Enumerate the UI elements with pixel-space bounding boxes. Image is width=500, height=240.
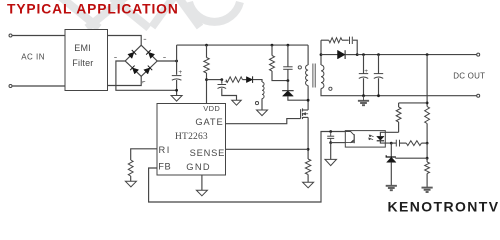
wire bbox=[307, 45, 309, 65]
bridge diode upper-left bbox=[128, 50, 136, 58]
wire bbox=[390, 162, 392, 186]
svg-text:GATE: GATE bbox=[195, 117, 223, 127]
ground vdd cap bbox=[232, 100, 242, 105]
wire bbox=[426, 174, 428, 188]
node bbox=[175, 89, 178, 92]
transistor Q1 mosfet bbox=[301, 108, 309, 119]
capacitor C5 snub2 bbox=[350, 37, 353, 44]
optocoupler U2 box bbox=[345, 131, 385, 148]
wire bbox=[222, 88, 237, 100]
diode D1 aux bbox=[246, 76, 252, 83]
node bbox=[287, 79, 290, 82]
node bbox=[377, 53, 380, 56]
opto LED bbox=[377, 136, 384, 140]
wire source bbox=[307, 117, 309, 159]
svg-text:EMI: EMI bbox=[74, 43, 91, 53]
diode D2 snubber bbox=[282, 91, 294, 96]
node bbox=[329, 130, 332, 133]
wire bbox=[391, 142, 396, 144]
wire bbox=[320, 40, 322, 65]
capacitor C2 vdd bbox=[218, 85, 227, 89]
label FB bbox=[158, 162, 171, 172]
wire bbox=[426, 158, 428, 162]
label HT2263 bbox=[175, 132, 208, 142]
node bridge+ bbox=[175, 60, 178, 63]
node bbox=[426, 142, 429, 145]
wire bbox=[207, 79, 222, 81]
wire bbox=[12, 85, 65, 87]
ground zener bbox=[386, 186, 397, 190]
wire bbox=[130, 176, 132, 181]
wire bbox=[176, 80, 178, 96]
resistor R9 bbox=[406, 141, 421, 146]
diode D3 output bbox=[338, 50, 346, 59]
svg-text:AC IN: AC IN bbox=[21, 52, 45, 61]
bridge diode lower-right bbox=[144, 66, 152, 74]
resistor R10 bbox=[425, 162, 430, 174]
node drain bbox=[307, 99, 310, 102]
ground out bbox=[358, 101, 369, 105]
wire emitter bbox=[331, 142, 346, 144]
wire bbox=[426, 55, 428, 107]
wire bbox=[345, 54, 357, 56]
wire gate bbox=[226, 119, 301, 124]
node bbox=[362, 53, 365, 56]
wire bbox=[400, 142, 407, 144]
wire led cathode bbox=[380, 141, 391, 143]
svg-text:DC OUT: DC OUT bbox=[453, 71, 485, 80]
capacitor C8 fb2 bbox=[396, 140, 399, 147]
wire bbox=[363, 96, 365, 101]
node bbox=[271, 44, 274, 47]
wire bbox=[206, 73, 208, 104]
capacitor C1 bulk bbox=[172, 76, 182, 81]
label GND bbox=[186, 162, 211, 172]
wire bbox=[421, 142, 427, 144]
svg-text:GND: GND bbox=[186, 162, 211, 172]
wire FB bbox=[149, 132, 346, 203]
resistor R5 ri bbox=[128, 160, 133, 176]
label + bbox=[178, 69, 182, 76]
wire bbox=[353, 40, 357, 54]
label + bbox=[364, 68, 368, 75]
opto light arrows bbox=[369, 135, 374, 140]
wire bbox=[321, 54, 338, 56]
transformer core bbox=[313, 64, 315, 88]
node bbox=[390, 142, 393, 145]
pin tick 3 bbox=[143, 81, 145, 83]
secondary phase dot bbox=[329, 87, 332, 90]
node bbox=[205, 44, 208, 47]
pin tick 2 bbox=[163, 57, 166, 59]
wire bbox=[157, 60, 176, 62]
node bbox=[426, 53, 429, 56]
bridge diode lower-left bbox=[130, 66, 138, 74]
svg-text:KENOTRONTV: KENOTRONTV bbox=[388, 199, 500, 215]
capacitor C6 out bbox=[359, 74, 368, 79]
wire DC+ rail bbox=[177, 44, 309, 46]
wire bbox=[243, 79, 247, 81]
wire bbox=[391, 157, 427, 159]
node aux phase dot bbox=[255, 102, 258, 105]
ground bulk cap bbox=[171, 96, 182, 102]
resistor R4 sense bbox=[305, 159, 310, 175]
wire bbox=[399, 102, 428, 104]
wire bbox=[395, 157, 427, 159]
svg-text:Filter: Filter bbox=[72, 58, 93, 68]
label GATE bbox=[195, 117, 223, 127]
wire bbox=[330, 143, 332, 160]
wire GND bbox=[201, 175, 203, 190]
pin tick 1 bbox=[144, 38, 147, 40]
wire bbox=[272, 71, 288, 81]
label DC OUT bbox=[453, 71, 485, 80]
svg-text:TYPICAL APPLICATION: TYPICAL APPLICATION bbox=[7, 2, 179, 17]
wire bbox=[206, 45, 208, 57]
capacitor C3 snubber bbox=[283, 67, 292, 70]
resistor R1 startup bbox=[204, 58, 209, 74]
label + bbox=[224, 79, 228, 86]
ground sense bbox=[303, 182, 314, 188]
wire bbox=[378, 78, 380, 96]
transformer T1 primary bbox=[306, 65, 309, 86]
opto phototransistor bbox=[345, 132, 354, 144]
svg-text:+: + bbox=[364, 68, 368, 75]
ground ri bbox=[125, 181, 136, 187]
node bbox=[377, 94, 380, 97]
wire bbox=[398, 103, 400, 107]
node sense bbox=[307, 148, 310, 151]
node bbox=[220, 78, 223, 81]
wire bbox=[321, 39, 329, 41]
bridge rectifier BD1 frame bbox=[125, 45, 157, 76]
resistor R3 snubber bbox=[270, 56, 275, 72]
wire out+ rail bbox=[357, 54, 476, 56]
node bbox=[356, 53, 359, 56]
svg-text:VDD: VDD bbox=[203, 104, 220, 113]
watermark bbox=[57, 0, 240, 28]
svg-text:+: + bbox=[178, 69, 182, 76]
ground r10 bbox=[422, 188, 433, 192]
primary phase dot bbox=[298, 66, 301, 69]
wire bbox=[271, 45, 273, 55]
wire RI bbox=[131, 149, 157, 160]
node bbox=[329, 141, 332, 144]
capacitor C7 out bbox=[374, 74, 383, 79]
ground aux bbox=[257, 110, 268, 116]
logo KENOTRONTV bbox=[388, 199, 500, 215]
node bbox=[426, 102, 429, 105]
wire bbox=[12, 35, 65, 37]
label EMI Filter bbox=[72, 43, 93, 68]
label RI bbox=[159, 145, 171, 155]
ground ic bbox=[196, 190, 207, 196]
wire bbox=[221, 80, 223, 84]
ground fb bbox=[325, 159, 337, 165]
resistor R6 snub2 bbox=[329, 38, 342, 43]
wire bbox=[108, 76, 142, 85]
wire bbox=[288, 96, 308, 100]
terminal out- bbox=[477, 94, 480, 97]
wire sense bbox=[226, 148, 308, 150]
wire bbox=[176, 45, 178, 75]
transformer T1 secondary bbox=[321, 65, 324, 89]
terminal AC top bbox=[9, 34, 12, 37]
wire out- rail bbox=[321, 89, 477, 96]
IC U1 HT2263 box bbox=[157, 104, 226, 176]
wire bbox=[363, 55, 365, 74]
node VDD bbox=[205, 78, 208, 81]
node bbox=[287, 44, 290, 47]
pin tick 4 bbox=[114, 57, 117, 59]
svg-text:HT2263: HT2263 bbox=[175, 132, 208, 142]
wire neg rail bbox=[116, 61, 177, 90]
EMI filter box bbox=[65, 30, 108, 91]
zener ZD1 bbox=[386, 155, 396, 162]
wire bbox=[426, 124, 428, 144]
terminal AC bottom bbox=[9, 85, 12, 88]
wire bbox=[287, 69, 289, 80]
svg-text:FB: FB bbox=[158, 162, 171, 172]
wire bbox=[287, 45, 289, 67]
node bbox=[426, 157, 429, 160]
node bbox=[362, 94, 365, 97]
wire bbox=[342, 39, 349, 41]
wire bbox=[287, 81, 289, 91]
aux winding bbox=[262, 82, 264, 99]
wire bbox=[108, 36, 142, 46]
label SENSE bbox=[190, 148, 226, 158]
resistor R7 bbox=[396, 107, 401, 122]
terminal out+ bbox=[477, 53, 480, 56]
resistor R2 aux bbox=[226, 77, 243, 82]
wire led anode bbox=[380, 132, 398, 136]
title TYPICAL APPLICATION bbox=[7, 2, 179, 17]
node bbox=[320, 53, 323, 56]
wire bbox=[261, 99, 263, 111]
wire bbox=[426, 143, 428, 158]
wire bbox=[390, 143, 392, 157]
svg-text:RI: RI bbox=[159, 145, 171, 155]
capacitor C4 fb bbox=[327, 132, 334, 143]
label VDD bbox=[203, 104, 220, 113]
wire bbox=[307, 175, 309, 183]
wire bbox=[307, 86, 309, 111]
bridge diode upper-right bbox=[146, 50, 154, 58]
svg-text:SENSE: SENSE bbox=[190, 148, 226, 158]
wire bbox=[363, 78, 365, 96]
wire bbox=[398, 122, 400, 132]
label AC IN bbox=[21, 52, 45, 61]
wire bbox=[253, 80, 262, 82]
wire bbox=[378, 55, 380, 74]
resistor R8 bbox=[425, 107, 430, 124]
